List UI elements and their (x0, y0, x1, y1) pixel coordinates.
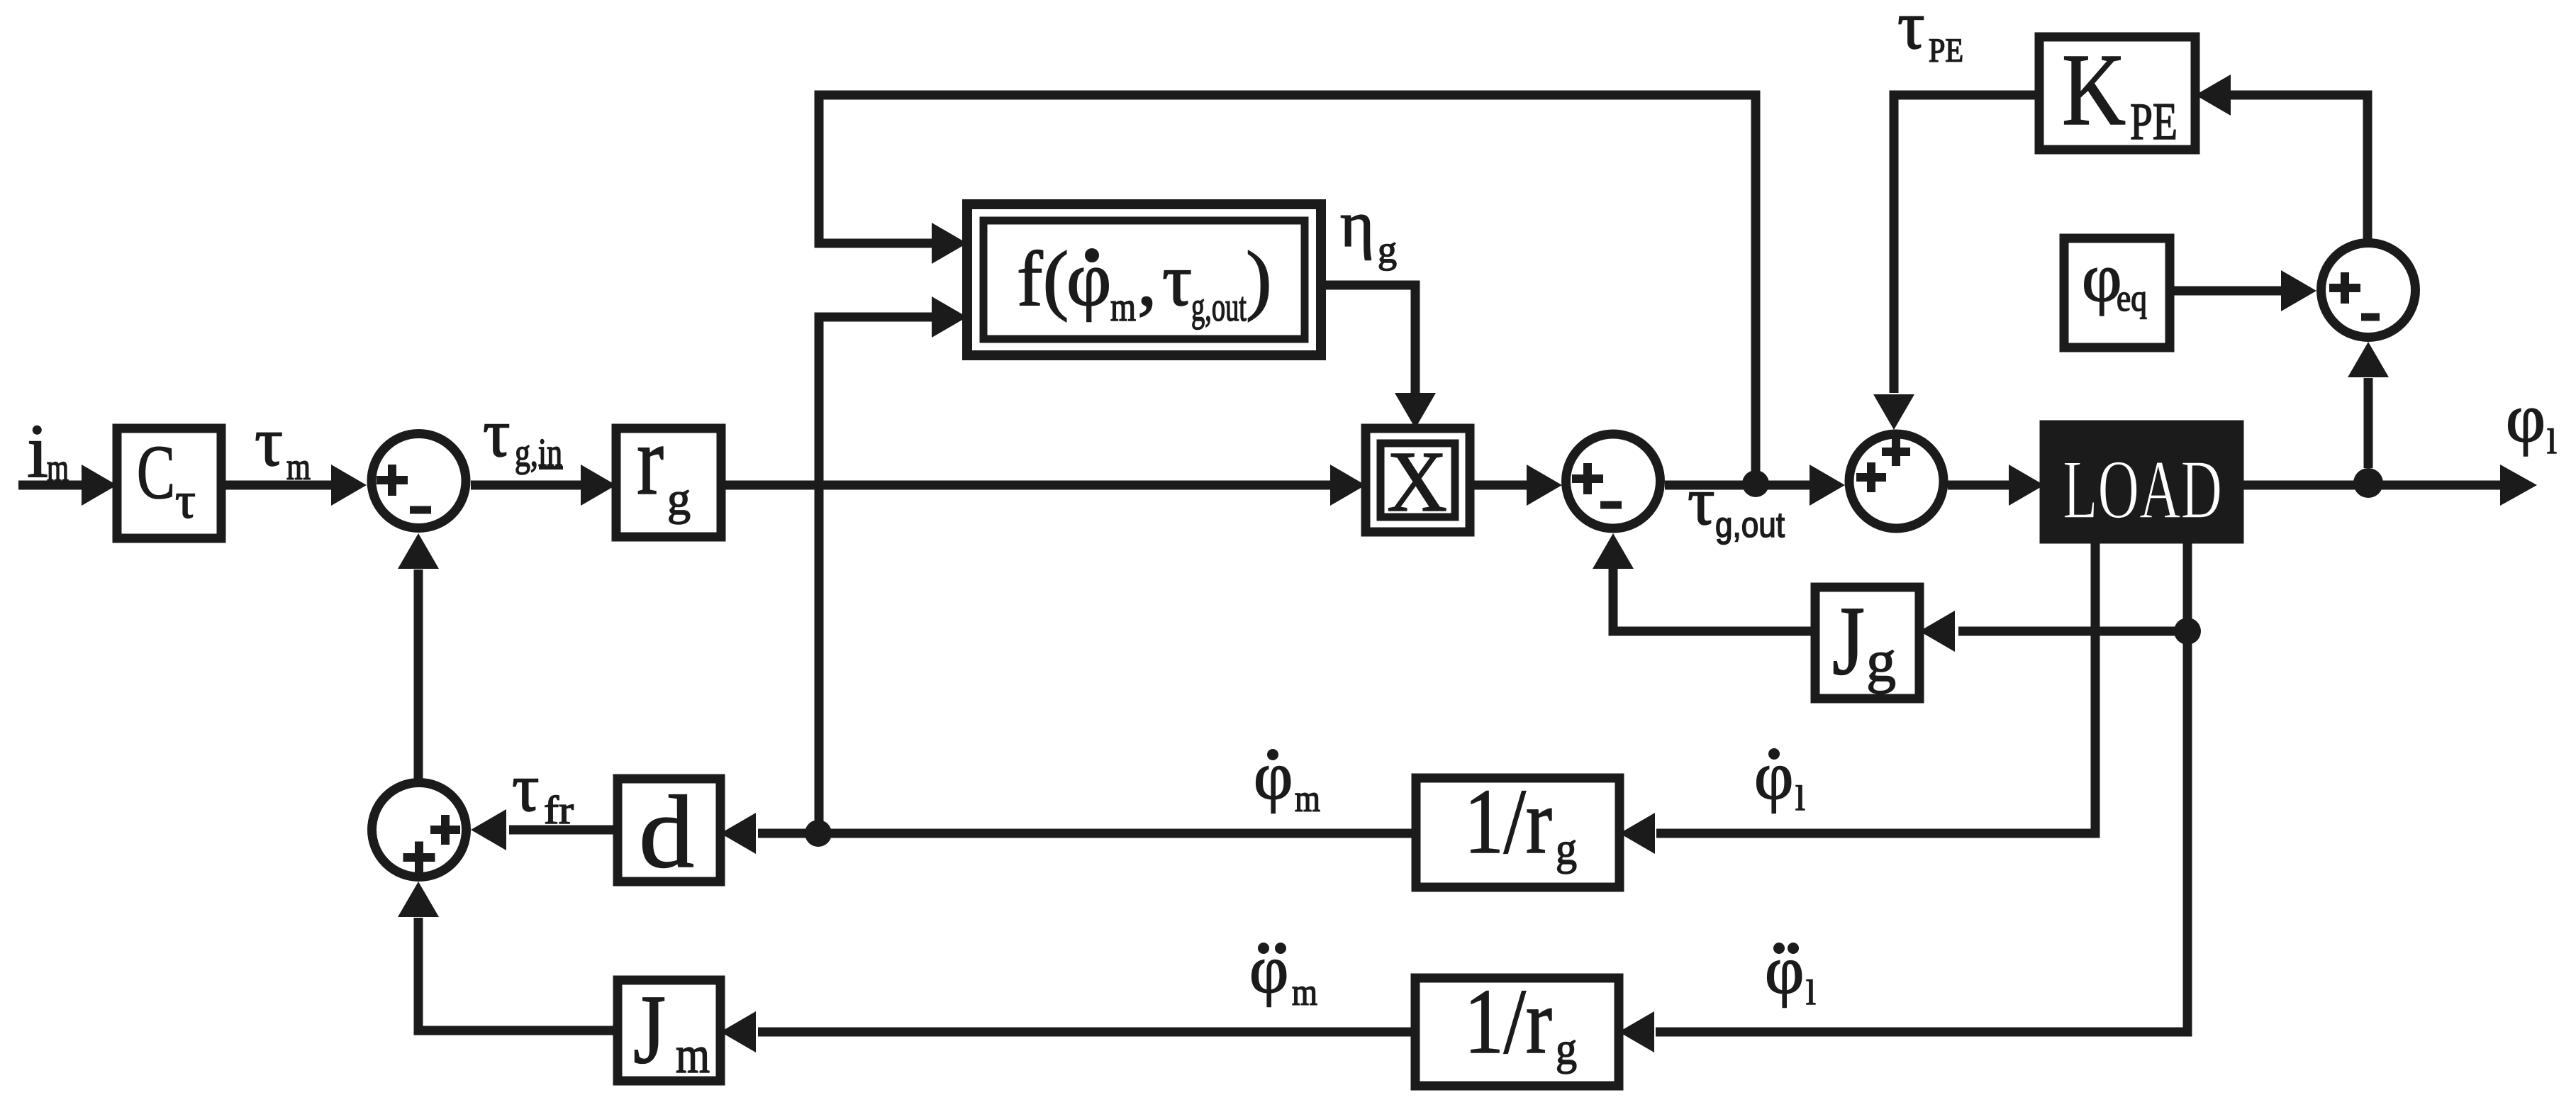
label phi_l_dot (1768, 748, 1780, 760)
svg-text:φ: φ (1765, 932, 1804, 1008)
svg-text:PE: PE (1929, 32, 1963, 70)
wire junction to J_g (1958, 627, 2187, 636)
block d (618, 779, 720, 882)
wire S3 to LOAD (1948, 481, 2012, 490)
svg-text:fr: fr (544, 789, 574, 833)
svg-text:τ: τ (1688, 463, 1715, 539)
svg-text:d: d (639, 774, 694, 889)
junction phi_m_dot branch (805, 820, 832, 847)
svg-text:g: g (1378, 228, 1397, 271)
svg-text:φ: φ (1254, 738, 1293, 813)
wire tau_g,out feedback to f input 1 (819, 95, 1756, 474)
svg-text:i: i (27, 409, 48, 494)
label phi_m_ddot (1258, 943, 1269, 954)
svg-text:m: m (1295, 777, 1320, 820)
label phi_m_dot (1267, 749, 1278, 760)
block C_tau (117, 428, 221, 538)
wire S1 to r_g (tau_g,in) (471, 481, 584, 490)
wire LOAD to output phi_l (2239, 481, 2500, 490)
wire phi_eq to S4 (2170, 287, 2283, 296)
svg-text:m: m (1292, 971, 1317, 1013)
summing junction S3 (1849, 434, 1944, 528)
svg-text:g,out: g,out (1715, 505, 1785, 545)
svg-text:g: g (1866, 628, 1896, 694)
svg-text:l: l (1806, 972, 1816, 1012)
svg-text:LOAD: LOAD (2063, 443, 2222, 536)
junction J_g tap (2174, 618, 2201, 645)
wire J_m to S5 (418, 918, 618, 1030)
wire LOAD left leg to 1/r_g upper (phi_l_dot) (1656, 539, 2095, 833)
svg-text:K: K (2062, 33, 2126, 147)
block phi_eq (2064, 238, 2170, 348)
summing junction S1 (372, 434, 466, 528)
svg-text:τ: τ (1897, 0, 1925, 63)
summing junction S4 (2321, 243, 2416, 338)
svg-text:): ) (1246, 235, 1272, 322)
svg-text:φ: φ (2506, 380, 2546, 456)
svg-text:g: g (1556, 823, 1577, 874)
svg-text:J: J (633, 975, 666, 1084)
svg-text:PE: PE (2130, 93, 2178, 151)
svg-text:τ: τ (255, 402, 283, 481)
wire phi_m_dot vertical to f input 2 (819, 317, 934, 833)
svg-text:φ: φ (1754, 738, 1793, 813)
svg-text:m: m (286, 445, 311, 488)
wire K_PE output to S3 (tau_PE) (1894, 95, 2039, 393)
wire input i_m (18, 481, 84, 490)
wire S4 up and into K_PE (2231, 95, 2368, 243)
wire r_g to X multiplier (721, 481, 1333, 490)
svg-text:τ: τ (175, 472, 196, 529)
svg-text:τ: τ (512, 750, 540, 826)
svg-text:1/r: 1/r (1464, 970, 1552, 1073)
svg-text:,: , (1137, 235, 1157, 322)
block 1/r_g upper (1416, 778, 1619, 887)
summing junction S5 (372, 783, 467, 877)
svg-text:J: J (1832, 587, 1865, 696)
block 1/r_g lower (1415, 978, 1619, 1086)
svg-text:τ: τ (483, 395, 511, 471)
block LOAD (2044, 425, 2239, 539)
svg-text:X: X (1387, 434, 1447, 530)
svg-text:g: g (1556, 1023, 1577, 1074)
svg-text:f(: f( (1017, 235, 1069, 322)
wire X to S2 (1470, 481, 1529, 490)
block J_m (618, 980, 720, 1081)
svg-text:m: m (676, 1026, 710, 1084)
svg-text:l: l (1795, 778, 1805, 818)
block K_PE (2039, 37, 2195, 150)
wire S2 to S3 (tau_g,out) (1665, 481, 1812, 490)
svg-text:m: m (47, 446, 69, 490)
svg-text:φ: φ (1249, 931, 1288, 1007)
svg-text:eq: eq (2117, 277, 2147, 319)
wire S5 to S1 (414, 570, 423, 779)
block r_g (616, 428, 721, 537)
wire d to S5 (tau_fr) (509, 826, 618, 835)
summing junction S2 (1566, 434, 1661, 528)
svg-text:l: l (2547, 421, 2557, 461)
junction tau_g,out (1742, 470, 1769, 497)
block J_g (1815, 587, 1919, 699)
wire LOAD right leg to 1/r_g lower (phi_l_ddot) (1656, 539, 2187, 1032)
svg-text:τ: τ (1162, 238, 1192, 321)
wire J_g to S2 (1613, 569, 1815, 631)
svg-text:g,out: g,out (1191, 284, 1247, 330)
wire phi_l up to S4 (2364, 378, 2373, 468)
svg-text:g: g (667, 473, 691, 525)
svg-text:1/r: 1/r (1464, 770, 1552, 873)
block f(phi_m_dot, tau_g,out) double border (967, 204, 1321, 355)
svg-text:r: r (637, 406, 664, 516)
wire 1/r_g upper to d (phi_m_dot) (758, 829, 1416, 838)
multiplier X box (double border) (1366, 428, 1470, 532)
wire 1/r_g lower to J_m (phi_m_ddot) (758, 1028, 1415, 1037)
svg-text:η: η (1340, 188, 1374, 260)
svg-text:m: m (1110, 284, 1136, 330)
svg-text:C: C (137, 430, 175, 515)
label phi_l_ddot (1773, 943, 1785, 954)
wire f output eta_g to X (1321, 285, 1415, 394)
wire C_tau to S1 (tau_m) (221, 481, 334, 490)
svg-text:φ: φ (1066, 235, 1112, 322)
junction phi_l (2353, 468, 2383, 498)
